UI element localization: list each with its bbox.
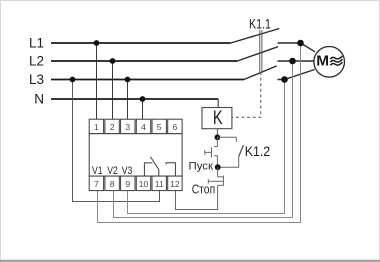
contactor K1.1 pole 1 blade [231,29,280,44]
relay output contact blade [151,157,159,176]
wire self-hold branch upper [217,137,236,142]
svg-text:K: K [213,108,223,129]
contactor K1.1 pole 3 blade [244,66,277,80]
relay body box [89,134,182,176]
button stop (Стоп) NC contact [208,167,223,186]
wire self-hold branch lower [218,157,239,168]
relay terminal 8 [105,176,119,191]
mechanical linkage dashed to coil K [232,72,261,117]
svg-text:V1: V1 [92,165,103,177]
node junction motor phase 2 [289,58,296,65]
wire N line [51,98,218,100]
wire L1 line [51,42,231,44]
wire L3 line [51,79,244,81]
svg-text:L1: L1 [29,36,44,51]
relay terminal 2 [105,119,119,134]
wire motor phase 2 [278,60,314,62]
wire drop L1 to terminal 1 [96,43,98,120]
svg-text:9: 9 [125,179,130,189]
svg-text:6: 6 [173,122,178,132]
svg-text:K1.2: K1.2 [245,144,271,159]
wire L3 branch to terminal 11 [73,80,160,202]
wire sense terminal 7 loop [98,43,301,223]
wire sense terminal 8 loop [114,61,293,218]
svg-text:8: 8 [110,179,115,189]
svg-text:2: 2 [110,122,115,132]
wire drop L2 to terminal 2 [112,61,114,120]
relay terminal 4 [136,119,150,134]
coil K box [202,108,232,129]
node junction on L3 [125,77,131,83]
svg-text:12: 12 [170,179,180,189]
svg-text:L2: L2 [29,54,44,69]
relay terminal 5 [152,119,166,134]
relay terminal 10 [136,176,150,191]
relay terminal 1 [89,119,103,134]
svg-text:N: N [34,92,44,107]
contactor K1.1 pole 2 blade [237,47,278,61]
wire motor phase 3 [278,70,315,80]
button start (Пуск) NO contact [205,137,218,167]
svg-text:1: 1 [94,122,99,132]
relay terminal 3 [121,119,135,134]
wire stop button to terminal 12 [176,185,218,209]
svg-text:Стоп: Стоп [192,182,216,196]
wire coil K to node [216,129,218,137]
svg-text:K1.1: K1.1 [249,16,271,31]
relay output contact fixed bracket left [144,163,152,176]
wire L2 line [51,60,237,62]
svg-text:7: 7 [94,179,99,189]
mechanical linkage double line [260,30,262,72]
motor tilde marks [330,56,342,65]
wire N to coil K [217,99,219,108]
node junction on N [140,96,146,102]
node junction on L1 [94,40,100,46]
svg-text:3: 3 [125,122,130,132]
node junction motor phase 3 [281,76,288,83]
relay terminal 11 [152,176,166,191]
svg-text:L3: L3 [29,72,44,87]
node above start button [215,134,221,140]
wire motor phase 1 [278,43,316,52]
wire drop L3 to terminal 3 [127,80,129,120]
svg-text:5: 5 [157,122,162,132]
svg-text:V3: V3 [122,165,133,177]
relay terminal 12 [168,176,182,191]
wire sense terminal 9 loop [128,80,285,214]
svg-text:Пуск: Пуск [189,161,214,173]
svg-text:V2: V2 [107,165,118,177]
node below start button [215,164,221,170]
node junction on L2 [110,58,116,64]
svg-text:M: M [316,54,329,70]
relay output contact fixed bracket right [166,163,175,176]
svg-text:11: 11 [155,179,164,189]
svg-text:10: 10 [139,179,149,189]
relay terminal 6 [168,119,182,134]
relay terminal 9 [121,176,135,191]
node junction motor phase 1 [297,40,304,47]
wire drop N to terminal 4 [142,99,144,120]
motor M circle [314,47,345,78]
node junction L3 branch [70,77,76,83]
relay terminal 7 [89,176,103,191]
contact K1.2 blade [239,145,244,157]
svg-text:4: 4 [141,122,146,132]
